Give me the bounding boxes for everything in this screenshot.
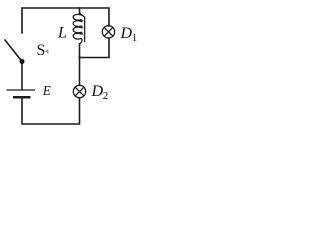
switch cursor arrow — [45, 49, 48, 53]
wire left lower + bottom wire + up to D2 — [22, 98, 80, 124]
wire top: left corner to top-right, with stubs down — [22, 8, 109, 33]
wire junction horizontal: node to D1 branch — [80, 38, 110, 58]
wire inductor bottom to node — [79, 44, 81, 58]
svg-text:L: L — [57, 25, 67, 42]
switch pivot junction dot — [20, 59, 25, 64]
inductor L coil loops — [73, 14, 82, 44]
switch S blade — [5, 40, 22, 62]
svg-text:S: S — [37, 42, 46, 59]
svg-text:D: D — [91, 83, 104, 100]
wire inductor stub from top — [79, 8, 81, 14]
battery E short thick plate — [13, 96, 31, 99]
inductor L entry hook — [80, 13, 85, 17]
lamp D2 cross — [75, 87, 84, 96]
wire middle: D2 top to junction node — [79, 58, 81, 86]
svg-text:2: 2 — [103, 90, 109, 102]
svg-text:D: D — [120, 25, 133, 42]
battery E long plate — [7, 89, 36, 91]
lamp D1 circle — [102, 26, 114, 38]
lamp D1 cross — [104, 27, 113, 36]
inductor L core line — [84, 17, 86, 43]
lamp D2 circle — [73, 85, 85, 97]
wire left: below switch to battery — [21, 62, 23, 89]
svg-text:E: E — [42, 83, 51, 98]
svg-text:1: 1 — [132, 32, 138, 44]
